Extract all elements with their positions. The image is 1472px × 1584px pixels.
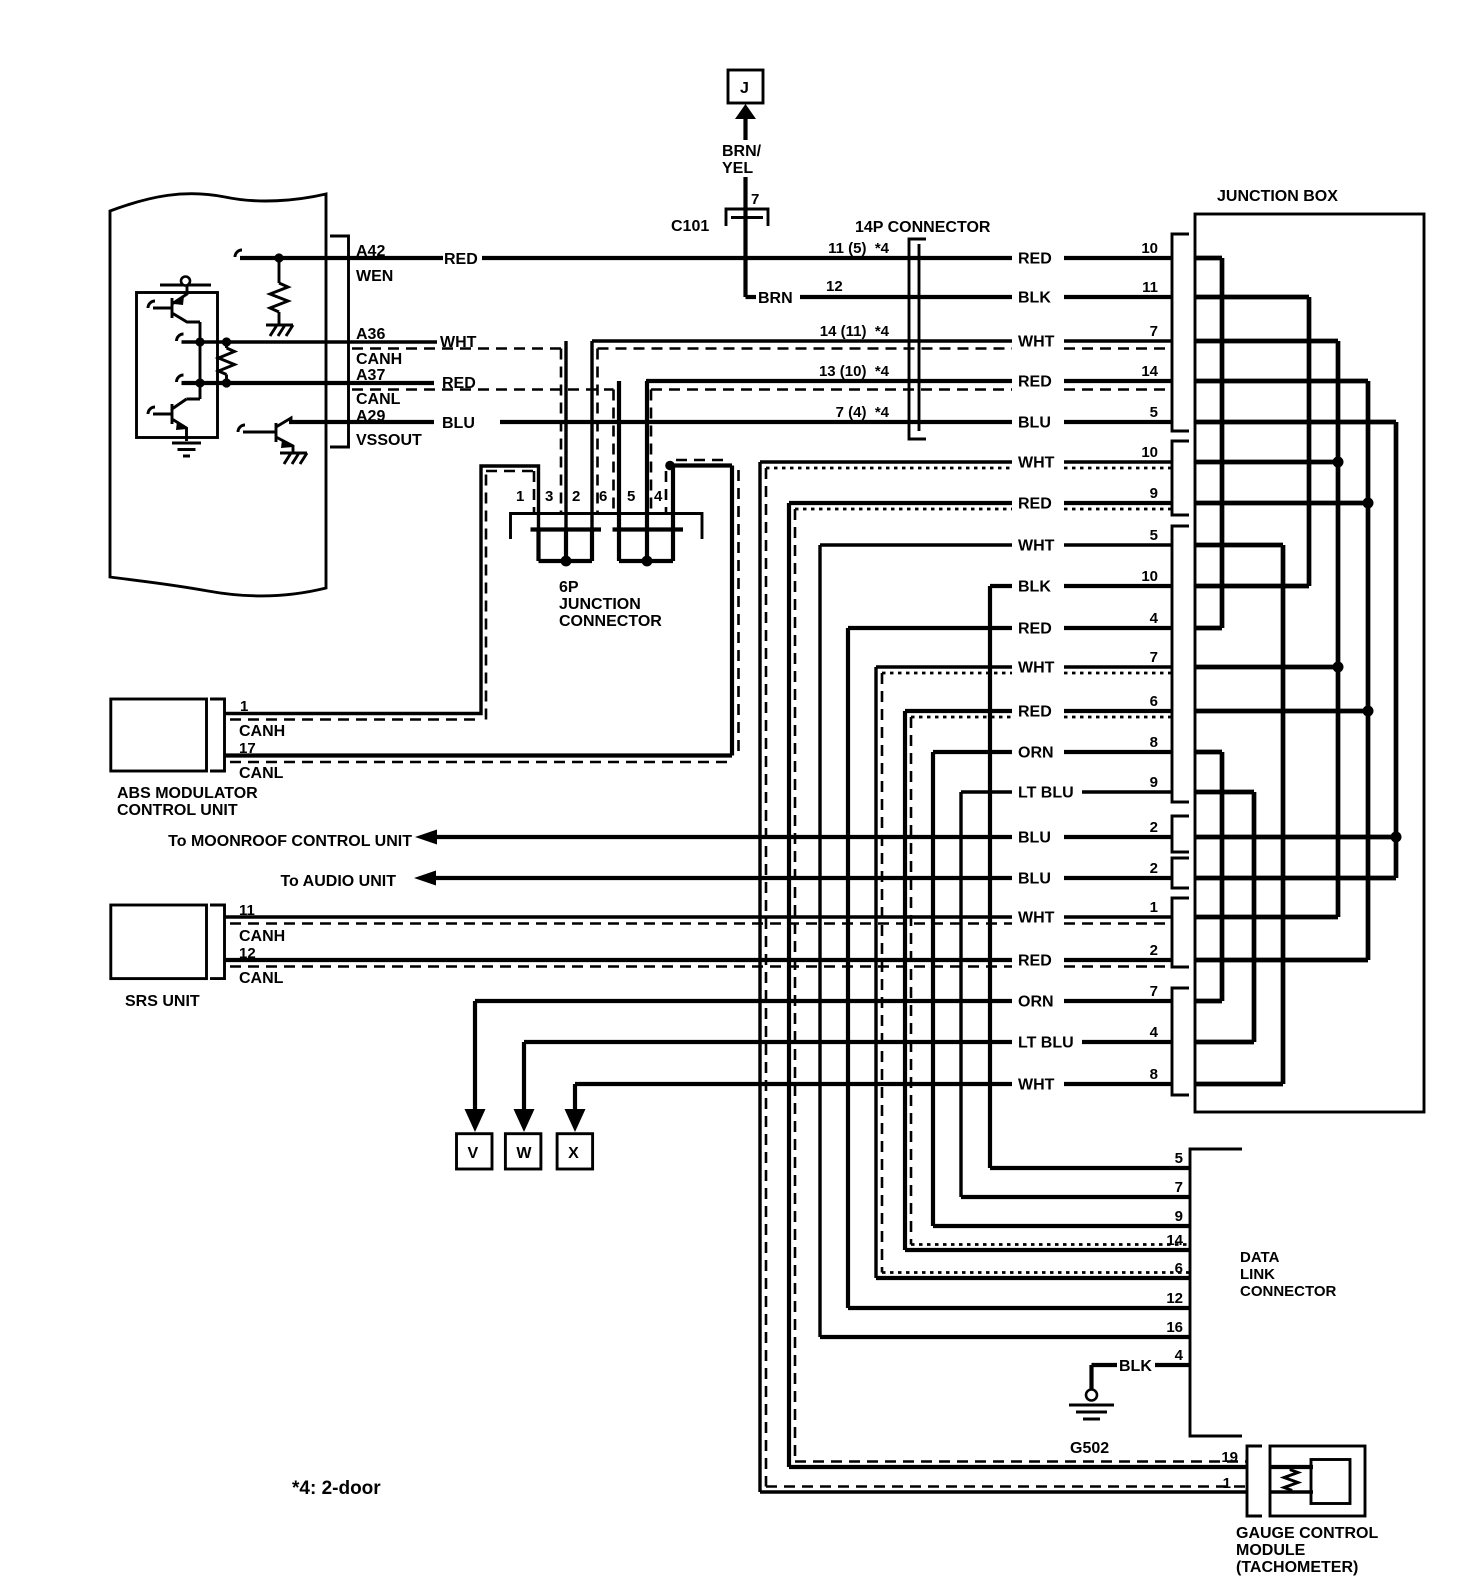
Q1 arrow bbox=[174, 296, 184, 305]
svg-text:CANH: CANH bbox=[239, 928, 285, 945]
svg-text:JUNCTION BOX: JUNCTION BOX bbox=[1217, 188, 1338, 205]
svg-text:2: 2 bbox=[572, 488, 580, 505]
svg-text:4: 4 bbox=[654, 488, 663, 505]
6P U-bus 1 bbox=[531, 530, 602, 562]
wire RED vertical drop x905 bbox=[903, 711, 907, 1250]
svg-text:V: V bbox=[468, 1145, 479, 1162]
junction interior wire y960 bbox=[1195, 958, 1368, 963]
svg-text:A29: A29 bbox=[356, 408, 385, 425]
junction interior vertical v3b x1283 bbox=[1281, 545, 1286, 1084]
svg-text:5: 5 bbox=[627, 488, 635, 505]
svg-text:ABS MODULATOR: ABS MODULATOR bbox=[117, 785, 258, 802]
wire ORN pin row y752 bbox=[933, 750, 1172, 754]
svg-text:BRN/: BRN/ bbox=[722, 143, 762, 160]
wire WHT vertical drop x760 bbox=[758, 462, 761, 1492]
ground (Q2 emitter) bbox=[172, 443, 201, 456]
svg-text:DATA: DATA bbox=[1240, 1249, 1280, 1266]
wire LT BLU pin row y792 bbox=[961, 790, 1172, 793]
wire A36 WHT right half (6P pin2 to 14P to junction) bbox=[592, 339, 1172, 342]
arrow into X bbox=[565, 1109, 586, 1132]
junction interior wire y711 bbox=[1195, 709, 1368, 714]
wire A42/WEN (RED) left segment bbox=[240, 256, 443, 260]
wire BRN/YEL vertical (upper) bbox=[743, 118, 747, 140]
DLC wire pin 14 bbox=[905, 1248, 1190, 1252]
svg-text:To AUDIO UNIT: To AUDIO UNIT bbox=[280, 873, 396, 890]
svg-text:WHT: WHT bbox=[1018, 910, 1055, 927]
resistor R2 (CAN terminator) bbox=[219, 342, 235, 383]
svg-text:RED: RED bbox=[1018, 953, 1052, 970]
svg-text:W: W bbox=[516, 1145, 532, 1162]
svg-text:6: 6 bbox=[1175, 1260, 1183, 1277]
wire ABS CANL horizontal bbox=[225, 753, 732, 757]
connector J reference box bbox=[728, 70, 763, 103]
svg-text:9: 9 bbox=[1150, 485, 1158, 502]
wire WHT pin row y667 bbox=[876, 665, 1172, 668]
junction interior wire y341 bbox=[1195, 339, 1338, 344]
6P connector bar bbox=[511, 514, 703, 540]
junction box connector bracket G1 bbox=[1172, 234, 1189, 431]
node dot R2 bottom bbox=[222, 378, 231, 387]
svg-text:7: 7 bbox=[1150, 983, 1158, 1000]
svg-text:CANL: CANL bbox=[239, 765, 284, 782]
arrow up to J bbox=[735, 104, 756, 119]
14P connector symbol bbox=[909, 239, 926, 439]
data link connector bracket bbox=[1190, 1149, 1242, 1436]
svg-text:10: 10 bbox=[1141, 240, 1158, 257]
svg-text:17: 17 bbox=[239, 740, 256, 757]
svg-text:RED: RED bbox=[1018, 496, 1052, 513]
junction interior wire y667 bbox=[1195, 665, 1338, 670]
DLC pin 4 wire (BLK) bbox=[1092, 1363, 1191, 1367]
svg-text:1: 1 bbox=[240, 698, 248, 715]
wire BLK right stub to strip bbox=[1064, 295, 1172, 299]
module connector bracket bbox=[330, 236, 349, 447]
node dot R2 top bbox=[222, 337, 231, 346]
svg-text:11: 11 bbox=[1142, 279, 1158, 296]
Q2 base lead curl bbox=[148, 407, 155, 414]
svg-text:12: 12 bbox=[1166, 1290, 1183, 1307]
svg-text:2: 2 bbox=[1150, 942, 1158, 959]
wire A36/CANH internal bbox=[182, 340, 438, 343]
transistor Q1 bbox=[153, 285, 200, 322]
svg-text:MODULE: MODULE bbox=[1236, 1542, 1306, 1559]
junction box connector bracket G2 bbox=[1172, 441, 1189, 515]
dash gauge pin 1 bbox=[766, 1485, 1247, 1488]
junction box connector bracket G5 bbox=[1172, 858, 1189, 888]
dash companion RED y711 bbox=[911, 716, 1172, 719]
svg-text:4: 4 bbox=[1175, 1347, 1184, 1364]
wire SRS CANL (RED) to junction bbox=[225, 958, 1172, 962]
wire BRN corner to 14P pin 12 bbox=[746, 295, 757, 299]
lead curl A42 bbox=[235, 250, 242, 257]
Q3 arrow bbox=[281, 440, 293, 448]
ground symbol G502 bbox=[1069, 1405, 1114, 1419]
wire ABS CANH riser to 6P pin1 bbox=[225, 466, 539, 714]
dash gauge pin 19 bbox=[795, 1460, 1247, 1463]
svg-text:5: 5 bbox=[1175, 1150, 1183, 1167]
wire to audio (BLU) bbox=[433, 876, 1172, 880]
dash companion vertical x795 bbox=[794, 509, 797, 1462]
svg-text:7: 7 bbox=[1175, 1179, 1183, 1196]
svg-text:9: 9 bbox=[1175, 1208, 1183, 1225]
wire RED vertical drop x848 bbox=[846, 628, 850, 1308]
junction box connector bracket G7 bbox=[1172, 988, 1189, 1095]
dash into DLC pin 6 bbox=[882, 1271, 1190, 1274]
svg-text:CONTROL UNIT: CONTROL UNIT bbox=[117, 802, 238, 819]
svg-text:14 (11) *4: 14 (11) *4 bbox=[820, 323, 890, 340]
junction interior wire y1042 bbox=[1195, 1040, 1254, 1045]
svg-text:1: 1 bbox=[1223, 1475, 1231, 1492]
svg-text:8: 8 bbox=[1150, 734, 1158, 751]
svg-text:16: 16 bbox=[1166, 1319, 1183, 1336]
svg-text:7: 7 bbox=[1150, 649, 1158, 666]
svg-text:CANL: CANL bbox=[239, 970, 284, 987]
wire RED right stub to strip bbox=[1064, 256, 1172, 260]
svg-text:CONNECTOR: CONNECTOR bbox=[1240, 1283, 1337, 1300]
connector box X bbox=[557, 1134, 593, 1169]
svg-text:12: 12 bbox=[826, 278, 843, 295]
wire SRS CANH (WHT) to junction bbox=[225, 915, 1172, 918]
wire 6P pin6 drop (CANL) bbox=[617, 381, 621, 529]
svg-text:6: 6 bbox=[1150, 693, 1158, 710]
svg-text:WHT: WHT bbox=[1018, 660, 1055, 677]
ground (below R1) bbox=[266, 325, 293, 336]
svg-text:SRS UNIT: SRS UNIT bbox=[125, 993, 200, 1010]
svg-text:LINK: LINK bbox=[1240, 1266, 1275, 1283]
junction interior dot (1338,667) bbox=[1333, 662, 1344, 673]
SRS connector bracket bbox=[210, 905, 225, 979]
svg-text:2: 2 bbox=[1150, 860, 1158, 877]
svg-text:CANH: CANH bbox=[356, 351, 402, 368]
svg-text:14: 14 bbox=[1166, 1232, 1183, 1249]
DLC wire pin 9 bbox=[933, 1224, 1190, 1228]
junction interior vertical v2b x1254 bbox=[1252, 792, 1257, 1042]
svg-text:4: 4 bbox=[1150, 610, 1159, 627]
wire to moonroof (BLU) bbox=[434, 835, 1172, 839]
junction interior wire y297 bbox=[1195, 295, 1309, 300]
supply circle bbox=[181, 277, 190, 286]
connector C101 symbol bbox=[726, 209, 768, 226]
svg-text:RED: RED bbox=[1018, 251, 1052, 268]
dash companion WHT y462 bbox=[766, 467, 1172, 470]
junction interior vertical v1b x1222 bbox=[1220, 752, 1225, 1001]
svg-text:VSSOUT: VSSOUT bbox=[356, 432, 422, 449]
svg-text:GAUGE CONTROL: GAUGE CONTROL bbox=[1236, 1525, 1378, 1542]
junction interior dot (1368,711) bbox=[1363, 706, 1374, 717]
junction interior wire y1084 bbox=[1195, 1082, 1283, 1087]
svg-text:9: 9 bbox=[1150, 774, 1158, 791]
Q3 base lead curl bbox=[238, 425, 245, 432]
svg-text:WHT: WHT bbox=[1018, 538, 1055, 555]
wire LT BLU pin row y1042 to W bbox=[524, 1040, 1172, 1044]
transistor Q3 (VSSOUT driver) bbox=[243, 418, 293, 453]
svg-text:X: X bbox=[568, 1145, 579, 1162]
svg-text:ORN: ORN bbox=[1018, 745, 1054, 762]
dash pin6 bbox=[612, 390, 615, 514]
svg-text:BLU: BLU bbox=[1018, 415, 1051, 432]
lead curl CANH bbox=[177, 334, 184, 341]
dash companion vertical x882 bbox=[881, 673, 884, 1273]
svg-text:CANL: CANL bbox=[356, 391, 401, 408]
ground terminal circle G502 bbox=[1086, 1390, 1097, 1401]
SRS unit box bbox=[111, 905, 207, 979]
junction interior wire y422 bbox=[1195, 420, 1396, 425]
wire 6P pin4 link to ABS CANL riser bbox=[669, 466, 732, 756]
junction interior vertical v4 x1368 bbox=[1366, 381, 1371, 960]
wire WHT vertical drop x876 bbox=[874, 667, 877, 1278]
svg-text:LT BLU: LT BLU bbox=[1018, 785, 1074, 802]
dash ABS CANH bbox=[230, 471, 534, 720]
svg-text:RED: RED bbox=[1018, 374, 1052, 391]
gauge pin 1 wire (WHT) bbox=[760, 1490, 1313, 1493]
gauge internal resistor bbox=[1284, 1467, 1298, 1492]
wire A29 BLU main run bbox=[500, 420, 1172, 424]
wire RED pin row y503 bbox=[789, 501, 1172, 505]
svg-text:BLK: BLK bbox=[1018, 579, 1051, 596]
svg-text:WHT: WHT bbox=[1018, 455, 1055, 472]
svg-text:RED: RED bbox=[444, 251, 478, 268]
wire BLK vertical drop x990 bbox=[988, 586, 992, 1168]
wire WHT vertical drop x820 bbox=[818, 545, 821, 1337]
ABS modulator control unit box bbox=[111, 699, 207, 771]
wire vertical drop to V bbox=[473, 1001, 477, 1110]
svg-text:4: 4 bbox=[1150, 1024, 1159, 1041]
svg-text:BLU: BLU bbox=[442, 415, 475, 432]
wire Q1-Q2 vertical bbox=[199, 322, 202, 399]
wire WHT pin row y545 bbox=[820, 543, 1172, 546]
svg-text:3: 3 bbox=[545, 488, 553, 505]
svg-text:BLK: BLK bbox=[1119, 1358, 1152, 1375]
dash CANL riser bbox=[230, 460, 739, 762]
wire RED pin row y711 bbox=[905, 709, 1172, 713]
junction interior wire y462 bbox=[1195, 460, 1338, 465]
junction interior dot (1338,462) bbox=[1333, 457, 1344, 468]
wire vertical drop to X bbox=[573, 1084, 577, 1110]
svg-text:(TACHOMETER): (TACHOMETER) bbox=[1236, 1559, 1358, 1576]
junction interior wire y1001 bbox=[1195, 999, 1222, 1004]
wire RED pin row y628 bbox=[848, 626, 1172, 630]
svg-text:To MOONROOF CONTROL UNIT: To MOONROOF CONTROL UNIT bbox=[168, 833, 412, 850]
junction interior wire y752 bbox=[1195, 750, 1222, 755]
dash WHT left half (A36) bbox=[352, 347, 561, 350]
svg-text:WHT: WHT bbox=[1018, 1077, 1055, 1094]
wire BRN/YEL vertical (lower) + pin 7 into C101 and down to BRN corner bbox=[743, 177, 747, 297]
svg-text:WEN: WEN bbox=[356, 268, 393, 285]
to audio unit arrow bbox=[414, 871, 436, 886]
svg-text:1: 1 bbox=[1150, 899, 1158, 916]
svg-text:CONNECTOR: CONNECTOR bbox=[559, 613, 662, 630]
junction interior dot (1396,837) bbox=[1391, 832, 1402, 843]
junction interior wire y545 bbox=[1195, 543, 1283, 548]
dash RED left half (A37) bbox=[352, 388, 614, 391]
connector box W bbox=[505, 1134, 541, 1169]
wire WHT pin row y1084 to X bbox=[575, 1082, 1172, 1086]
junction interior vertical v3 x1338 bbox=[1336, 341, 1341, 917]
node dot U1 bbox=[561, 556, 572, 567]
DLC wire pin 12 bbox=[848, 1306, 1190, 1310]
svg-text:J: J bbox=[740, 80, 749, 97]
svg-text:A37: A37 bbox=[356, 367, 385, 384]
svg-text:JUNCTION: JUNCTION bbox=[559, 596, 641, 613]
svg-text:10: 10 bbox=[1141, 444, 1158, 461]
svg-text:11 (5) *4: 11 (5) *4 bbox=[828, 240, 890, 257]
dash SRS CANL bbox=[230, 965, 1172, 968]
junction interior vertical v2 x1309 bbox=[1307, 297, 1312, 586]
node dot CANH x200 bbox=[195, 337, 204, 346]
svg-text:7: 7 bbox=[1150, 323, 1158, 340]
svg-text:8: 8 bbox=[1150, 1066, 1158, 1083]
gauge inner element box bbox=[1311, 1460, 1350, 1504]
svg-text:14: 14 bbox=[1141, 363, 1158, 380]
ground drop G502 bbox=[1089, 1365, 1093, 1389]
control module (torn-edge box) bbox=[110, 194, 326, 596]
svg-text:RED: RED bbox=[1018, 621, 1052, 638]
transistor Q2 bbox=[153, 399, 200, 441]
wire BLK pin row y586 bbox=[990, 584, 1172, 588]
svg-text:C101: C101 bbox=[671, 218, 709, 235]
lead curl CANL bbox=[177, 375, 184, 382]
svg-text:A36: A36 bbox=[356, 326, 385, 343]
dash SRS CANH bbox=[230, 922, 1172, 925]
6P U-bus 2 bbox=[613, 530, 684, 562]
Q2 arrow bbox=[176, 421, 187, 430]
dash companion WHT y667 bbox=[882, 672, 1172, 675]
dash companion vertical x911 bbox=[910, 717, 913, 1245]
dash companion RED y503 bbox=[795, 508, 1172, 511]
gauge control module box bbox=[1270, 1446, 1365, 1516]
junction interior wire y628 bbox=[1195, 626, 1222, 631]
ground (Q3 emitter) bbox=[280, 453, 307, 464]
gauge module connector bracket bbox=[1247, 1446, 1262, 1516]
dash WHT right half bbox=[598, 347, 1173, 350]
DLC wire pin 7 bbox=[961, 1195, 1190, 1199]
DLC wire pin 6 bbox=[876, 1276, 1190, 1280]
svg-text:G502: G502 bbox=[1070, 1440, 1109, 1457]
node dot CANL x200 bbox=[195, 378, 204, 387]
svg-text:YEL: YEL bbox=[722, 160, 753, 177]
svg-text:19: 19 bbox=[1221, 1449, 1238, 1466]
svg-text:5: 5 bbox=[1150, 527, 1158, 544]
wire WHT pin row y462 bbox=[760, 460, 1172, 463]
svg-text:LT BLU: LT BLU bbox=[1018, 1035, 1074, 1052]
junction interior wire y586 bbox=[1195, 584, 1309, 589]
wire A42 RED main run to junction box bbox=[482, 256, 1012, 260]
junction interior wire y837 bbox=[1195, 835, 1396, 840]
junction interior dot (1368,503) bbox=[1363, 498, 1374, 509]
svg-text:7: 7 bbox=[751, 191, 759, 208]
wire BRN segment to 14P bbox=[800, 295, 1012, 299]
junction interior wire y381 bbox=[1195, 379, 1368, 384]
junction box connector bracket G4 bbox=[1172, 816, 1189, 852]
wire 6P pin3 drop (CANH) bbox=[564, 341, 567, 529]
wire A37/CANL internal bbox=[182, 381, 435, 385]
dash companion vertical x766 bbox=[765, 468, 768, 1487]
dash RED right half bbox=[651, 388, 1172, 391]
Q1 base lead curl bbox=[148, 301, 155, 308]
svg-text:5: 5 bbox=[1150, 404, 1158, 421]
arrow into V bbox=[465, 1109, 486, 1132]
wire 6P pin5 drop bbox=[645, 381, 649, 529]
svg-text:WHT: WHT bbox=[1018, 334, 1055, 351]
dash pin3 bbox=[560, 349, 563, 514]
svg-text:13 (10) *4: 13 (10) *4 bbox=[819, 363, 890, 380]
resistor R1 bbox=[270, 258, 288, 325]
svg-text:ORN: ORN bbox=[1018, 994, 1054, 1011]
junction interior wire y917 bbox=[1195, 915, 1338, 920]
wire LT BLU vertical drop x961 bbox=[959, 792, 962, 1197]
connector box V bbox=[457, 1134, 493, 1169]
junction box connector bracket G6 bbox=[1172, 898, 1189, 967]
to moonroof control unit arrow bbox=[415, 830, 437, 845]
gauge pin 19 wire (RED) bbox=[789, 1465, 1313, 1469]
junction interior wire y792 bbox=[1195, 790, 1254, 795]
svg-text:BLU: BLU bbox=[1018, 830, 1051, 847]
svg-text:RED: RED bbox=[1018, 704, 1052, 721]
arrow into W bbox=[514, 1109, 535, 1132]
svg-text:14P CONNECTOR: 14P CONNECTOR bbox=[855, 219, 991, 236]
node: dot on A42 at resistor R1 tap bbox=[274, 253, 283, 262]
dash pin5 bbox=[650, 390, 653, 514]
svg-text:7 (4) *4: 7 (4) *4 bbox=[836, 404, 890, 421]
junction interior vertical v1 x1222 bbox=[1220, 258, 1225, 628]
svg-text:CANH: CANH bbox=[239, 723, 285, 740]
svg-text:2: 2 bbox=[1150, 819, 1158, 836]
supply rail with circle bbox=[160, 284, 211, 287]
svg-text:*4: 2-door: *4: 2-door bbox=[292, 1478, 381, 1499]
node dot U2 bbox=[642, 556, 653, 567]
svg-text:10: 10 bbox=[1141, 568, 1158, 585]
DLC wire pin 16 bbox=[820, 1335, 1190, 1339]
wire 6P pin2 drop bbox=[590, 341, 593, 529]
svg-text:1: 1 bbox=[516, 488, 524, 505]
svg-text:BLK: BLK bbox=[1018, 290, 1051, 307]
DLC wire pin 5 bbox=[990, 1166, 1190, 1170]
wire vertical drop to W bbox=[522, 1042, 526, 1110]
wire ORN pin row y1001 to V bbox=[475, 999, 1172, 1003]
dash pin4 left bbox=[665, 471, 668, 513]
svg-text:6P: 6P bbox=[559, 579, 579, 596]
wire ORN vertical drop x933 bbox=[931, 752, 935, 1226]
svg-text:A42: A42 bbox=[356, 243, 385, 260]
junction box connector bracket G3 bbox=[1172, 526, 1189, 802]
junction box outline bbox=[1195, 214, 1424, 1112]
junction interior wire y258 bbox=[1195, 256, 1222, 261]
wire A29/VSSOUT internal bbox=[289, 420, 434, 424]
wire RED vertical drop x789 bbox=[787, 503, 791, 1467]
dash into DLC pin 14 bbox=[911, 1243, 1190, 1246]
junction interior wire y503 bbox=[1195, 501, 1368, 506]
svg-text:BRN: BRN bbox=[758, 290, 793, 307]
svg-text:6: 6 bbox=[599, 488, 607, 505]
ABS connector bracket bbox=[210, 699, 225, 771]
svg-text:BLU: BLU bbox=[1018, 871, 1051, 888]
junction interior wire y878 bbox=[1195, 876, 1396, 881]
node dot 6P pin4 top bbox=[665, 461, 675, 471]
wire A37 RED right half (6P pin5 to 14P to junction) bbox=[646, 379, 1172, 383]
dash pin2 bbox=[596, 349, 599, 514]
inner transistor sub-box bbox=[137, 293, 218, 438]
junction interior vertical v5 x1396 bbox=[1394, 422, 1399, 878]
